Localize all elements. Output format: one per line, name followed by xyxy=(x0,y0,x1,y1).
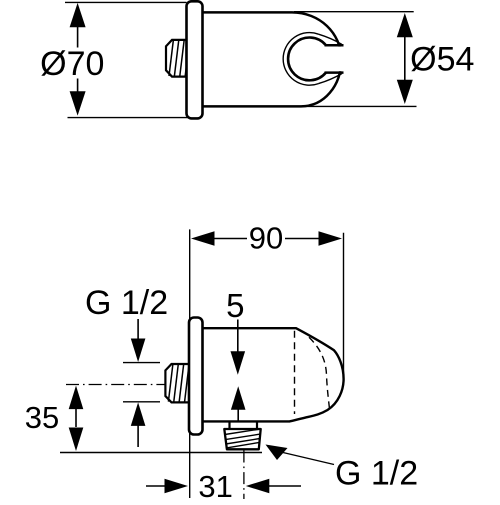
35 dimension shaft xyxy=(75,409,77,427)
arrowhead 90 left xyxy=(191,231,215,246)
cup lip upper (thin) xyxy=(319,34,342,44)
G1/2 lower arrow shaft xyxy=(137,423,139,447)
outlet boss left edge xyxy=(228,421,230,429)
threaded nipple (top view) xyxy=(166,40,187,77)
bottom extension line (outlet face, dim 35) xyxy=(60,452,262,454)
arrowhead D54 down xyxy=(397,80,413,104)
inlet bottom extension line xyxy=(123,401,160,403)
nipple thread hatch lines (top view) xyxy=(169,41,173,76)
holder cup inner bore (thick C arc) xyxy=(288,38,326,81)
arrowhead 31 left-pointing xyxy=(246,479,269,494)
arrowhead 5 down xyxy=(231,351,246,375)
front extension line (right, dim 90) xyxy=(343,233,345,380)
arrowhead G1/2 up xyxy=(131,402,146,426)
nut knurl lines xyxy=(225,429,261,435)
dome silhouette (dashed arc) xyxy=(309,337,330,411)
nipple thread hatch lines (bottom view) xyxy=(168,365,172,402)
holder axis centerline (dash-dot) xyxy=(205,375,315,377)
svg-text:31: 31 xyxy=(198,469,232,500)
notch upper edge xyxy=(325,44,344,47)
arrowhead 31 right-pointing xyxy=(165,479,189,494)
arrowhead G1/2 down xyxy=(131,339,146,363)
dimension line D54 shaft xyxy=(404,34,406,81)
svg-text:G 1/2: G 1/2 xyxy=(85,284,168,322)
G1/2 upper arrow shaft xyxy=(137,319,139,341)
outlet boss right edge xyxy=(256,421,258,429)
arrowhead 5 up xyxy=(231,386,246,410)
leader arrowhead to outlet nut xyxy=(266,445,288,461)
wall extension line (left, dims 90 and 31) xyxy=(189,229,191,498)
svg-text:5: 5 xyxy=(226,287,244,324)
wall flange (bottom view) xyxy=(189,318,203,435)
arrowhead 90 right xyxy=(319,231,343,246)
extension line right top (for dim 54) xyxy=(294,11,414,13)
inlet axis centerline (dash-dot) xyxy=(66,384,227,386)
dome joint line (dashed) xyxy=(294,331,296,414)
notch lower edge xyxy=(325,71,344,74)
leader line to G 1/2 label xyxy=(283,453,334,465)
svg-text:G 1/2: G 1/2 xyxy=(335,454,418,492)
extension line bottom (plate bottom, for dim 70) xyxy=(68,117,190,119)
threaded nipple (bottom view) xyxy=(165,364,190,402)
wall plate (top view) xyxy=(187,1,203,118)
dimension line 90 right segment xyxy=(285,238,321,240)
dimension line D70 shaft upper xyxy=(77,25,79,48)
svg-text:35: 35 xyxy=(25,400,59,435)
C-opening notch eraser xyxy=(322,47,349,72)
5 dimension upper shaft xyxy=(237,320,239,355)
arrowhead D70 up xyxy=(70,3,86,27)
inlet top extension line xyxy=(123,362,160,364)
arrowhead D70 down xyxy=(70,91,86,115)
dimension line 90 left segment xyxy=(212,238,247,240)
holder body (top view) xyxy=(202,12,341,106)
arrowhead D54 up xyxy=(397,13,413,37)
cup lip lower (thin) xyxy=(319,74,342,84)
5 dimension lower shaft xyxy=(237,409,239,421)
31 dimension left tail xyxy=(146,485,167,487)
outlet axis (dash-dot vertical) xyxy=(243,451,245,500)
dimension line D70 shaft lower xyxy=(77,79,79,95)
holder cup outer rim (thin arc) xyxy=(283,33,318,86)
svg-text:Ø70: Ø70 xyxy=(40,45,104,83)
extension line right bottom (for dim 54) xyxy=(300,105,417,107)
svg-text:90: 90 xyxy=(249,221,283,256)
holder body (bottom view) xyxy=(201,328,344,421)
svg-text:Ø54: Ø54 xyxy=(410,40,474,78)
31 dimension right tail xyxy=(267,485,301,487)
extension line top (plate top, for dim 70) xyxy=(65,1,187,3)
arrowhead 35 down xyxy=(69,428,84,452)
arrowhead 35 up xyxy=(69,386,84,410)
outlet nut xyxy=(224,429,260,449)
